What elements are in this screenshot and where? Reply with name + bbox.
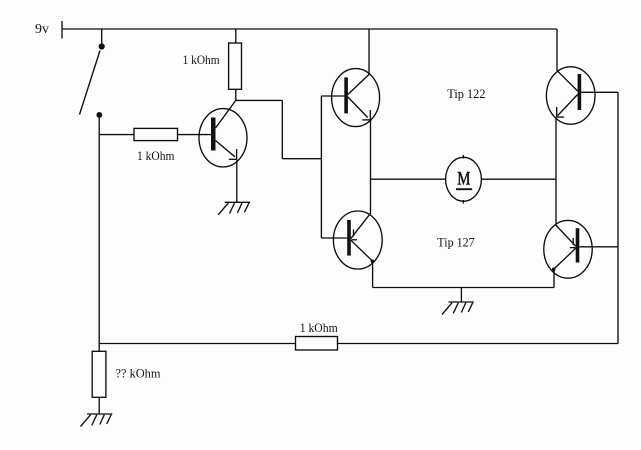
- wire: R4 to ground: [98, 397, 100, 414]
- transistor Q4 collector stroke: [557, 70, 578, 91]
- transistor Q4 emitter stroke with arrow: [557, 95, 578, 118]
- wire: left bridge mid vertical: [370, 120, 372, 213]
- wire: bridge ground stem: [460, 288, 462, 303]
- transistor Q2 collector stroke: [348, 74, 369, 94]
- svg-text:Tip 127: Tip 127: [437, 235, 474, 249]
- transistor Q1 collector stroke: [216, 100, 236, 128]
- transistor Q2 base bar: [344, 77, 348, 113]
- transistor Q3 base bar: [347, 220, 351, 256]
- motor M1 body: [446, 155, 482, 204]
- wire: jog right to base bus: [282, 158, 321, 160]
- switch SW1 blade (open): [80, 51, 101, 115]
- wire: left bridge base bus vertical: [320, 96, 322, 238]
- wire: jog down: [281, 100, 283, 158]
- transistor Q4 body (Tip 122 right): [546, 67, 595, 124]
- transistor Q2 emitter stroke with arrow: [348, 97, 371, 120]
- transistor Q2 body (Tip 122 left): [332, 69, 380, 127]
- wire: +9v top rail: [62, 28, 557, 30]
- wire: R1 to Q1 base: [178, 134, 212, 136]
- wire: Q3 base wire: [321, 237, 347, 239]
- resistor R4 ?? kOhm: [92, 351, 106, 397]
- transistor Q5 emitter stroke with arrow: [555, 224, 576, 248]
- node: switch top junction dot: [99, 43, 105, 49]
- wire: left vertical down to bottom run: [98, 135, 100, 344]
- transistor Q3 emitter stroke with arrow: [351, 213, 371, 240]
- resistor R3 1 kOhm (bottom): [296, 337, 338, 351]
- svg-text:?? kOhm: ?? kOhm: [116, 367, 161, 381]
- wire: stub to R4: [98, 344, 100, 352]
- wire: motor right lead: [481, 178, 556, 180]
- wire: R3 to right bus: [338, 343, 619, 345]
- transistor Q1 emitter stroke with arrow: [216, 141, 237, 160]
- ground G1: [218, 202, 250, 215]
- transistor Q5 base bar: [576, 228, 580, 262]
- svg-text:1 kOhm: 1 kOhm: [137, 149, 175, 163]
- svg-text:M: M: [457, 168, 470, 189]
- transistor Q3 collector stroke: [351, 240, 374, 263]
- wire: Q1 emitter to ground: [236, 159, 238, 202]
- transistor Q1 base bar: [211, 118, 216, 151]
- wire: collector node to jog: [236, 99, 282, 101]
- wire: Q4 base to right bus: [581, 91, 618, 93]
- wire: rail to R2: [235, 29, 237, 43]
- motor M1 letter: [456, 168, 472, 189]
- wire: Q3 collector to bottom rail: [372, 261, 374, 287]
- svg-text:1 kOhm: 1 kOhm: [300, 321, 338, 335]
- transistor Q4 base bar: [578, 74, 582, 110]
- wire: Q5 base to right bus: [579, 246, 618, 248]
- wire: bottom feedback run left: [99, 343, 295, 345]
- wire: Q2 base wire: [321, 95, 344, 97]
- ground G3: [442, 302, 474, 315]
- transistor Q3 body (Tip 127 left): [333, 211, 382, 269]
- svg-text:9v: 9v: [35, 22, 49, 37]
- node: switch bottom junction dot: [96, 112, 102, 118]
- wire: rail to Q4 collector: [556, 29, 558, 71]
- wire: bridge bottom rail: [373, 287, 554, 289]
- wire: switch dot down to base feed: [98, 117, 100, 135]
- wire: switch stub from rail: [101, 29, 103, 44]
- ground G2: [81, 414, 113, 427]
- wire: motor left lead: [371, 178, 446, 180]
- battery terminal tick: [61, 21, 63, 39]
- svg-text:Tip 122: Tip 122: [447, 87, 485, 101]
- wire: R2 to Q1 collector node: [235, 89, 237, 100]
- svg-text:1 kOhm: 1 kOhm: [183, 53, 220, 67]
- transistor Q5 collector stroke: [552, 248, 576, 271]
- wire: rail to Q2 collector: [368, 29, 370, 75]
- wire: right bus vertical: [617, 92, 619, 343]
- wire: right bridge mid vertical: [555, 117, 557, 224]
- transistor Q5 body (Tip 127 right): [544, 220, 592, 278]
- resistor R2 1 kOhm (collector load): [229, 43, 242, 89]
- transistor Q1 body: [199, 109, 247, 167]
- wire: Q5 collector to bottom rail: [553, 269, 555, 287]
- wire: base feed to R1: [99, 134, 134, 136]
- resistor R1 1 kOhm (base): [134, 128, 178, 140]
